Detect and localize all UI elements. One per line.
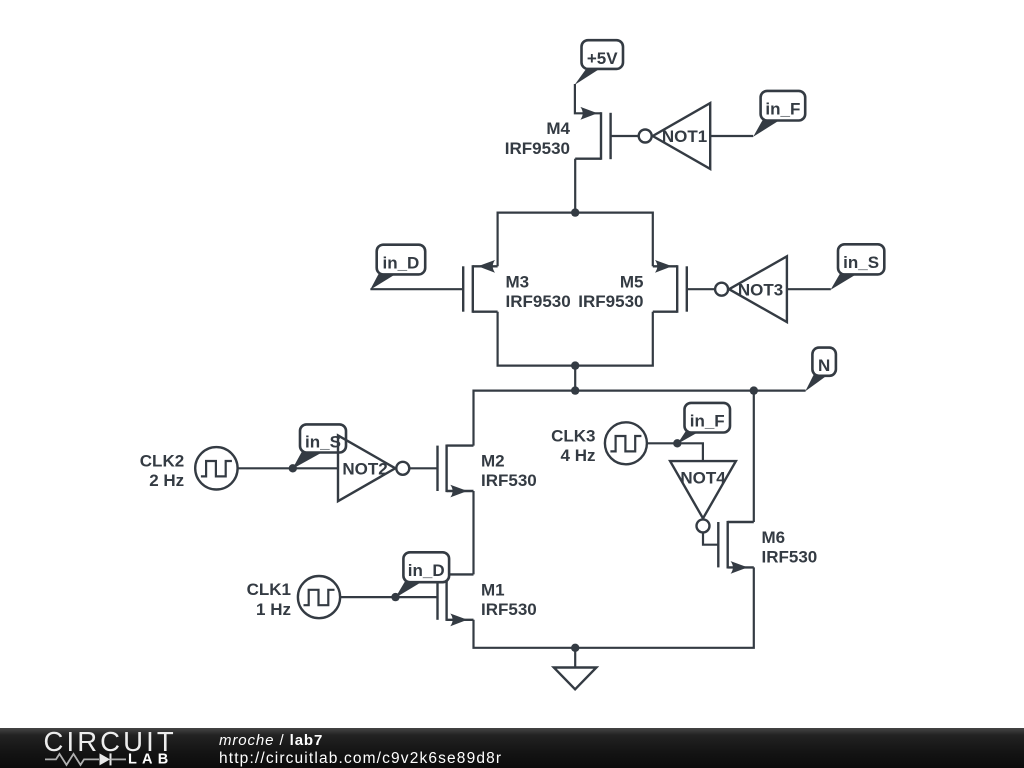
transistor M5 IRF9530: [578, 260, 687, 313]
node in_S top label: [831, 244, 885, 290]
wire NOT4 output to M6 gate: [703, 532, 718, 544]
svg-text:4 Hz: 4 Hz: [561, 446, 596, 465]
svg-text:+5V: +5V: [587, 49, 618, 68]
footer bar: [0, 728, 1024, 768]
wire top rail M3/M5 sources: [498, 213, 653, 267]
wire N rail: [474, 391, 806, 446]
svg-text:M1: M1: [481, 580, 505, 599]
op-amp NOT1: [639, 103, 711, 169]
svg-text:LAB: LAB: [128, 752, 173, 768]
svg-text:in_F: in_F: [690, 412, 725, 431]
node in_S bottom label: [292, 424, 346, 469]
wire bottom rail M3/M5 drains: [498, 312, 653, 366]
wire +5V to M4 source: [575, 84, 601, 113]
op-amp NOT2: [338, 435, 409, 501]
svg-text:mroche / lab7: mroche / lab7: [219, 732, 323, 749]
svg-text:IRF530: IRF530: [481, 471, 537, 490]
wire M2 source to M1 drain: [472, 491, 474, 574]
node in_F top label: [753, 91, 805, 137]
wire NOT2 output to M2 gate: [409, 467, 437, 469]
transistor M1 IRF530: [438, 573, 537, 626]
wire CLK2 to NOT2: [238, 467, 338, 469]
svg-text:M4: M4: [546, 119, 570, 138]
node in_D bottom label: [395, 552, 449, 598]
svg-text:CLK2: CLK2: [140, 451, 184, 470]
node junction N-rail M6: [750, 386, 758, 394]
node junction CLK1/in_D: [391, 593, 399, 601]
wire M1 source to ground rail: [474, 567, 754, 647]
svg-text:NOT4: NOT4: [680, 469, 726, 488]
voltage source CLK2 2Hz: [140, 447, 238, 490]
svg-text:in_D: in_D: [382, 254, 419, 273]
node junction top: [571, 208, 579, 216]
svg-text:IRF530: IRF530: [481, 600, 537, 619]
wire CLK3 to NOT4: [647, 443, 703, 461]
op-amp NOT3: [715, 256, 787, 322]
svg-text:M6: M6: [762, 528, 786, 547]
voltage source CLK3 4Hz: [551, 422, 647, 465]
node +5V supply label: [575, 40, 623, 85]
node junction middle: [571, 361, 579, 369]
node N label: [805, 348, 836, 392]
svg-text:IRF9530: IRF9530: [506, 292, 571, 311]
svg-text:in_S: in_S: [843, 253, 879, 272]
svg-text:M5: M5: [620, 272, 644, 291]
voltage source CLK1 1Hz: [247, 576, 341, 619]
svg-text:1 Hz: 1 Hz: [256, 600, 291, 619]
wire node to N rail: [574, 366, 576, 391]
ground: [554, 648, 597, 690]
transistor M2 IRF530: [438, 445, 537, 498]
node in_D top label: [370, 245, 425, 290]
wire CLK1 to M1 gate: [340, 596, 437, 598]
svg-text:CLK3: CLK3: [551, 427, 595, 446]
op-amp NOT4: [670, 461, 736, 532]
wire M4 gate to NOT1 output: [611, 135, 639, 137]
svg-text:NOT2: NOT2: [342, 459, 387, 478]
wire M5 gate to NOT3: [687, 288, 715, 290]
svg-text:NOT1: NOT1: [662, 127, 707, 146]
wire M6 drain to N rail: [753, 391, 755, 522]
svg-text:M3: M3: [506, 272, 530, 291]
svg-text:IRF9530: IRF9530: [578, 292, 643, 311]
svg-text:M2: M2: [481, 452, 505, 471]
node junction CLK3/in_F: [673, 439, 681, 447]
wire in_D to M3 gate: [370, 288, 463, 290]
CircuitLab logo: [44, 726, 177, 768]
transistor M4 IRF9530: [505, 107, 611, 160]
transistor M6 IRF530: [718, 521, 817, 574]
svg-text:in_D: in_D: [408, 561, 445, 580]
svg-text:N: N: [818, 356, 830, 375]
svg-text:in_F: in_F: [765, 100, 800, 119]
svg-text:in_S: in_S: [305, 433, 341, 452]
svg-text:IRF9530: IRF9530: [505, 139, 570, 158]
svg-text:IRF530: IRF530: [762, 548, 818, 567]
svg-text:http://circuitlab.com/c9v2k6se: http://circuitlab.com/c9v2k6se89d8r: [219, 750, 502, 767]
node junction ground: [571, 644, 579, 652]
svg-text:2 Hz: 2 Hz: [149, 471, 184, 490]
svg-text:NOT3: NOT3: [738, 280, 783, 299]
svg-text:CLK1: CLK1: [247, 580, 291, 599]
wire M4 drain to node: [574, 159, 576, 213]
wire NOT3 input to in_S: [787, 288, 831, 290]
node junction CLK2/in_S: [289, 464, 297, 472]
transistor M3 IRF9530: [463, 260, 571, 313]
footer title text: [219, 732, 502, 767]
node junction N-rail center: [571, 386, 579, 394]
wire NOT1 input to in_F: [710, 135, 753, 137]
node in_F bottom label: [677, 403, 730, 444]
